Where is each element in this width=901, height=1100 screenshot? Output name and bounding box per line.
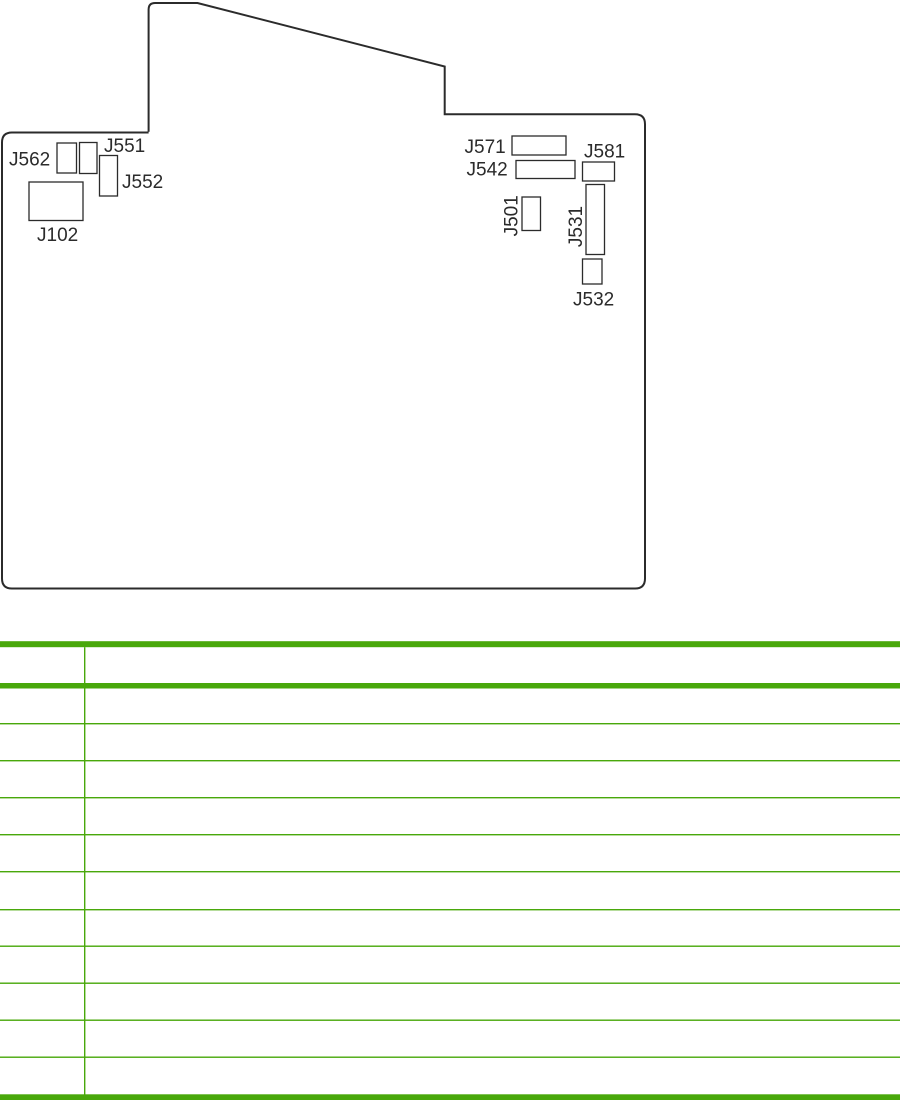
connector J562 box [57,143,77,173]
board outline [2,3,645,589]
svg-text:J542: J542 [467,160,508,181]
connector J532 box [583,259,603,284]
table header bottom thick rule [0,683,900,689]
svg-text:J501: J501 [502,195,523,236]
table row rule 6 [0,909,900,910]
table row rule 1 [0,723,900,724]
connector J501 box [522,197,541,231]
table row rule 5 [0,871,900,872]
svg-text:J532: J532 [573,290,614,311]
connector J542 box [516,161,575,179]
table row rule 10 [0,1057,900,1058]
svg-text:J581: J581 [584,141,625,162]
connector J531 box [586,185,605,255]
table row rule 7 [0,946,900,947]
connector J551 box [80,143,98,174]
table row rule 8 [0,983,900,984]
connector J571 box [512,136,566,155]
svg-text:J562: J562 [9,149,50,170]
svg-text:J102: J102 [37,225,78,246]
svg-text:J551: J551 [104,136,145,157]
table bottom thick rule [0,1094,900,1100]
table column divider [84,647,85,1094]
svg-text:J531: J531 [566,206,587,247]
table row rule 9 [0,1020,900,1021]
svg-text:J552: J552 [122,172,163,193]
table row rule 2 [0,760,900,761]
connector J581 box [583,162,615,181]
connector J552 box [100,156,118,197]
connector J102 box [29,182,83,221]
table row rule 4 [0,834,900,835]
table row rule 3 [0,797,900,798]
table top thick rule [0,641,900,647]
svg-text:J571: J571 [465,137,506,158]
